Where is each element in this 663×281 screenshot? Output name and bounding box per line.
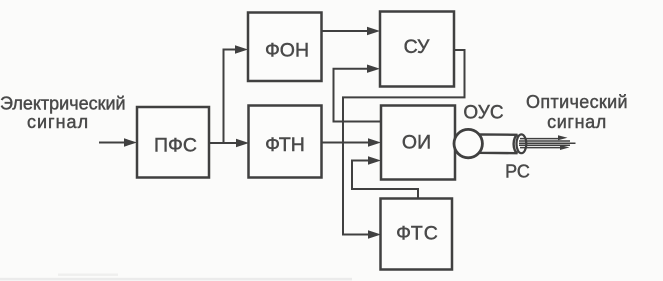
svg-text:Электрический: Электрический xyxy=(0,94,126,114)
svg-text:РС: РС xyxy=(505,162,530,182)
ray arrowhead top xyxy=(558,135,568,140)
svg-text:сигнал: сигнал xyxy=(27,112,89,132)
block ПФС xyxy=(137,107,209,178)
optical coupler tube РС xyxy=(479,134,518,153)
wire: branch up to ФОН xyxy=(224,50,238,144)
block ОИ xyxy=(381,106,455,180)
tube end ellipse xyxy=(517,134,527,153)
svg-text:Оптический: Оптический xyxy=(526,92,628,112)
ray arrowhead bottom xyxy=(560,145,570,150)
fiber rays xyxy=(519,139,576,148)
block СУ xyxy=(380,12,454,87)
scan smudge bottom xyxy=(0,278,352,281)
svg-text:сигнал: сигнал xyxy=(547,112,607,132)
label: Электрический сигнал xyxy=(0,94,126,133)
svg-text:ПФС: ПФС xyxy=(154,135,197,157)
svg-text:ОИ: ОИ xyxy=(402,132,431,154)
coupler circle ОУС xyxy=(454,129,482,157)
wire: ОИ feedback to СУ xyxy=(334,69,382,122)
block ФОН xyxy=(248,13,322,82)
svg-text:ФТН: ФТН xyxy=(265,134,305,156)
wire: input arrow into ПФС xyxy=(99,142,126,144)
wire: СУ to ФТС xyxy=(343,50,465,235)
wire: ФОН to СУ xyxy=(322,30,370,32)
wire: ПФС to ФТН with branch junction xyxy=(209,142,238,144)
scan smudge bottom2 xyxy=(58,274,118,276)
block ФТН xyxy=(249,106,322,178)
svg-text:ОУС: ОУС xyxy=(463,103,503,124)
block ФТС xyxy=(381,199,453,270)
label: Оптический сигнал xyxy=(526,92,628,132)
wire: ФТС to ОИ bias xyxy=(352,161,418,199)
svg-text:СУ: СУ xyxy=(404,36,430,58)
svg-text:ФОН: ФОН xyxy=(265,40,309,62)
wire: ФТН to ОИ xyxy=(322,142,371,144)
svg-text:ФТС: ФТС xyxy=(396,223,439,245)
